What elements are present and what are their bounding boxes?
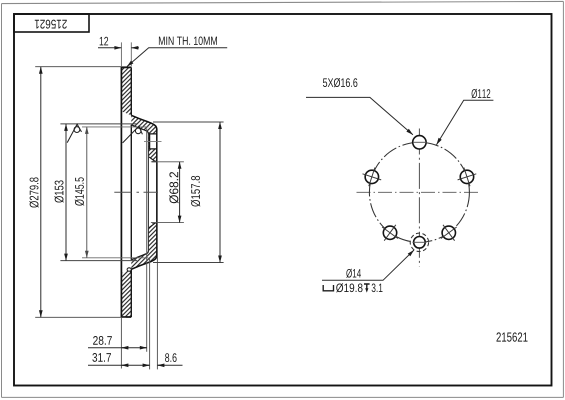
- extension line hat inner face 28.7: [146, 129, 148, 352]
- section hatch: hat upper neck and flange: [131, 115, 157, 161]
- dimension 31.7: [88, 364, 150, 366]
- part number 215621 bottom right: [496, 332, 527, 341]
- label Ø14 with leader: [346, 269, 361, 278]
- bolt hole right upper: [460, 170, 473, 183]
- centre bore top edge: [149, 157, 157, 162]
- dimension 28.7: [88, 347, 147, 349]
- vertical centerline: [418, 129, 420, 267]
- bolt hole top: [413, 136, 426, 149]
- label Ø19.8: [336, 283, 362, 292]
- section hatch: friction band: [121, 67, 131, 115]
- horizontal centerline: [357, 191, 481, 193]
- hat mounting face line: [156, 129, 158, 256]
- surface finish symbol on lower neck junction: [127, 268, 131, 271]
- label 3.1: [372, 283, 383, 292]
- dimension Ø157.8: [153, 122, 224, 263]
- hat inner edge top: [131, 125, 148, 134]
- bolt circle Ø112: [369, 142, 469, 242]
- outer sheet border: [2, 1, 564, 3]
- counterbore Ø19.8 dashed circle: [410, 233, 428, 251]
- axis centerline: [114, 191, 158, 193]
- bolt hole left upper: [365, 170, 378, 183]
- surface finish symbol on Ø153 line: [67, 124, 81, 142]
- extension line mounting face 31.7: [149, 258, 151, 369]
- hat outer edge bottom: [131, 254, 157, 269]
- hat inner face vertical: [147, 134, 149, 252]
- extension line band left lower: [120, 317, 122, 368]
- centre bore bottom edge: [149, 223, 157, 228]
- label Ø112 with leader: [471, 89, 490, 98]
- dimension Ø153: [60, 124, 137, 261]
- extension line pilot tip 8.6: [156, 163, 158, 370]
- dimension Ø145.5: [82, 127, 148, 258]
- band outline: [121, 67, 131, 317]
- label 5XØ16.6 with leader: [323, 78, 357, 87]
- bolt hole right lower: [442, 226, 455, 239]
- bolt hole void in section: [150, 134, 157, 149]
- title block box: [14, 14, 89, 32]
- hat outer edge top: [131, 115, 157, 130]
- bolt hole centerline: [144, 141, 162, 143]
- section hatch: hat lower neck and flange: [131, 223, 157, 269]
- dimension 8.6: [157, 364, 182, 366]
- dimension 12: [121, 42, 131, 66]
- counterbore symbol: [323, 285, 333, 291]
- dimension Ø279.8: [35, 67, 126, 318]
- bolt hole outline: [148, 134, 156, 149]
- depth symbol: [364, 284, 370, 289]
- surface finish symbol on hat neck: [123, 126, 143, 143]
- note MIN TH. 10MM with leader: [159, 37, 217, 45]
- part number 215621 (rotated 180): [35, 20, 67, 29]
- locating pin hole Ø14 bottom: [414, 237, 426, 249]
- hat inner edge bottom: [131, 251, 148, 260]
- bolt hole left lower: [383, 226, 396, 239]
- dimension Ø68.2: [151, 162, 184, 223]
